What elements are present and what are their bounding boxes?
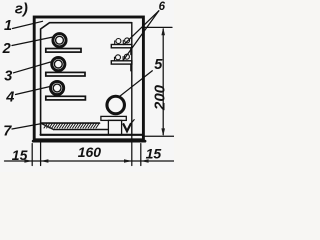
svg-text:15: 15 (146, 146, 162, 162)
svg-text:1: 1 (4, 18, 12, 34)
svg-text:6: 6 (159, 1, 166, 13)
svg-text:160: 160 (78, 144, 102, 160)
svg-text:15: 15 (12, 147, 28, 163)
svg-text:5: 5 (154, 57, 163, 73)
svg-text:г): г) (15, 1, 28, 18)
svg-text:7: 7 (3, 123, 12, 139)
svg-text:2: 2 (2, 41, 11, 57)
svg-text:200: 200 (151, 84, 168, 111)
svg-text:4: 4 (5, 89, 14, 105)
svg-text:3: 3 (4, 68, 12, 84)
